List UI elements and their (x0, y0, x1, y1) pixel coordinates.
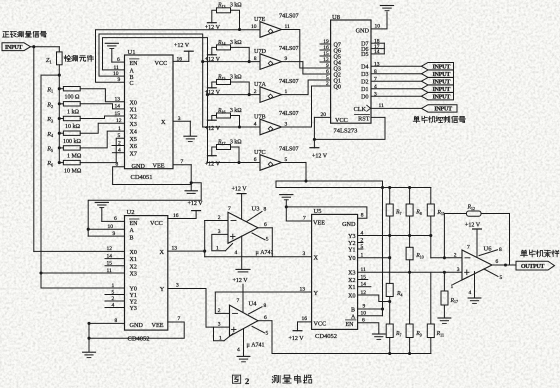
svg-text:X3: X3 (130, 272, 137, 278)
svg-text:D5: D5 (361, 52, 368, 58)
wire U5 Y3 row to resistor columns (358, 235, 431, 237)
supply bars +12V under U1 (185, 190, 197, 192)
svg-text:8: 8 (254, 56, 257, 62)
output tag OUTPUT (516, 261, 555, 270)
svg-text:10: 10 (251, 24, 257, 30)
U2 pin EN with ground above (130, 218, 140, 220)
input tag INPUT D1 (422, 85, 454, 92)
U6 output pin 6 (492, 264, 516, 266)
wire U5 X3 row to U6 non-inverting input (358, 271, 462, 273)
svg-text:Y1: Y1 (348, 247, 355, 253)
wire supply to U4 pin 7 (242, 284, 244, 312)
svg-text:R11: R11 (436, 210, 444, 216)
svg-text:EN: EN (130, 221, 139, 227)
svg-text:R12: R12 (467, 205, 476, 211)
svg-text:12: 12 (116, 118, 122, 124)
wire U1-C select loop to U7E input (96, 30, 261, 83)
svg-text:Y2: Y2 (130, 300, 137, 306)
wire U7E output to U8 Q3 (282, 30, 331, 69)
U5 pin EN to ground (346, 319, 357, 321)
resistor R3 10 kΩ (58, 117, 61, 120)
svg-text:R11: R11 (436, 331, 444, 337)
svg-text:INPUT: INPUT (5, 45, 22, 51)
svg-text:VEE: VEE (152, 322, 164, 329)
svg-text:OUTPUT: OUTPUT (521, 264, 545, 270)
svg-text:X: X (161, 119, 166, 126)
wire R15 to buffer input (231, 82, 250, 95)
wire bottom bus (272, 353, 431, 355)
svg-text:D2: D2 (361, 80, 368, 86)
U4 pin 4 to ground (243, 329, 245, 356)
wire R16 to +12V (212, 116, 217, 121)
svg-text:13: 13 (374, 61, 380, 67)
wire R3 to U1 X2 (80, 116, 124, 119)
caption 图2 测量电路 (Fig.2 measurement circuit) (233, 374, 241, 376)
svg-text:VCC: VCC (335, 117, 348, 124)
svg-text:6: 6 (264, 222, 267, 228)
svg-text:Y0: Y0 (348, 256, 355, 262)
svg-text:INPUT: INPUT (434, 106, 453, 113)
svg-text:D4: D4 (361, 65, 368, 71)
resistor R11 (top) (430, 188, 432, 205)
svg-text:U1: U1 (128, 49, 136, 56)
svg-text:X6: X6 (130, 144, 137, 150)
svg-text:Y1: Y1 (130, 293, 137, 299)
svg-text:U4: U4 (249, 300, 258, 307)
svg-text:7: 7 (374, 76, 377, 82)
svg-text:15: 15 (115, 111, 121, 117)
svg-text:X0: X0 (130, 250, 137, 256)
U1 pin X7 stub (112, 152, 124, 154)
svg-text:8: 8 (264, 303, 267, 309)
svg-text:VCC: VCC (150, 220, 163, 227)
svg-text:10: 10 (375, 23, 381, 29)
svg-text:R14: R14 (217, 40, 226, 46)
svg-text:100 Ω: 100 Ω (65, 94, 81, 100)
svg-text:3: 3 (374, 91, 377, 97)
svg-text:+12 V: +12 V (205, 57, 221, 63)
wire input rail down to U2 X0 (33, 47, 35, 252)
svg-text:INPUT: INPUT (432, 64, 451, 71)
svg-text:3: 3 (457, 267, 460, 273)
svg-text:C: C (130, 81, 134, 87)
wire R1 to U1 X0 (80, 89, 124, 102)
svg-text:Y2: Y2 (348, 241, 355, 247)
ground U2 (83, 351, 96, 353)
resistor R2 1 kΩ (58, 102, 61, 105)
svg-text:4: 4 (254, 122, 257, 128)
svg-text:Y0: Y0 (130, 287, 137, 293)
wire U1-A select loop (103, 38, 208, 163)
U6 pin 4 to ground (474, 272, 476, 298)
svg-text:X0: X0 (348, 293, 355, 299)
svg-text:X3: X3 (348, 271, 355, 277)
svg-text:R16: R16 (217, 108, 226, 114)
svg-text:+12 V: +12 V (289, 336, 305, 342)
buffer U7B 74LS07 (260, 119, 282, 135)
svg-text:R10: R10 (415, 253, 424, 259)
svg-text:INPUT: INPUT (432, 86, 451, 93)
svg-text:X1: X1 (130, 108, 137, 114)
wire U4 inverting input from Y bus (215, 312, 229, 314)
svg-text:A: A (130, 228, 135, 234)
U1 pin EN with ground (130, 58, 140, 60)
svg-text:RST: RST (358, 116, 370, 123)
svg-text:X1: X1 (348, 285, 355, 291)
wire R17 to +12V (212, 147, 217, 156)
wire R17 to buffer input (231, 147, 240, 163)
svg-text:6: 6 (264, 315, 267, 321)
svg-text:CD4051: CD4051 (131, 174, 153, 181)
wire U5 X0 to column A junction (358, 295, 390, 302)
svg-text:+12 V: +12 V (312, 153, 328, 159)
buffer U7E 74LS07 (260, 22, 282, 38)
svg-text:GND: GND (342, 221, 356, 228)
wire R16 to buffer input (231, 116, 240, 128)
wire ladder-top rail down to U2 X3/Y0 (40, 75, 42, 288)
svg-text:13: 13 (300, 286, 306, 292)
svg-text:X: X (314, 255, 319, 262)
wire Y bus to U5 (215, 291, 311, 293)
U3 pin 5 stub (252, 233, 265, 240)
svg-text:U7B: U7B (254, 113, 266, 120)
U1 pin X6 stub (112, 145, 125, 147)
label 正弦测量信号 (sine measurement signal) (3, 31, 9, 33)
svg-text:B: B (130, 235, 134, 241)
wire U4 pin1 loop (214, 327, 225, 341)
wire U5 Y0 to column A (358, 257, 390, 259)
svg-text:μ A741: μ A741 (256, 250, 274, 256)
svg-text:16: 16 (302, 316, 308, 322)
pull-up resistor R14 3k (217, 45, 231, 50)
resistor R6 10 MΩ (58, 161, 61, 164)
svg-text:Y3: Y3 (130, 306, 137, 312)
resistor R11 (bottom) (427, 324, 434, 338)
svg-text:2: 2 (326, 81, 329, 87)
analog mux U1 CD4051 (125, 55, 174, 169)
svg-text:Y: Y (314, 290, 319, 297)
wire X bus to U5 (205, 256, 312, 258)
input tag INPUT D0 (422, 93, 454, 100)
input tag INPUT D3 (422, 70, 454, 77)
svg-text:R15: R15 (217, 74, 226, 80)
svg-text:INPUT: INPUT (432, 94, 451, 101)
wire U4 non-inverting input from U2 Y (205, 289, 207, 328)
pull-up resistor R15 3k (217, 80, 231, 85)
svg-text:3 kΩ: 3 kΩ (230, 40, 242, 46)
svg-text:7: 7 (237, 298, 240, 304)
wire column C to U6 inverting (430, 216, 432, 258)
svg-text:4: 4 (237, 347, 240, 353)
wire INPUT to Z1 (31, 46, 60, 48)
label 送单片机采样 (to MCU sampling) (522, 249, 523, 252)
wire buffer U7C input line (208, 162, 261, 164)
svg-text:D1: D1 (361, 87, 368, 93)
input terminal INPUT tag (2, 43, 31, 51)
wire resistor top bus (276, 187, 431, 189)
svg-text:VCC: VCC (155, 60, 168, 67)
svg-text:4: 4 (374, 84, 377, 90)
svg-text:2: 2 (218, 308, 221, 314)
wire VEE node to U2 select feeder (88, 183, 201, 236)
svg-text:3: 3 (303, 251, 306, 257)
svg-text:CD4052: CD4052 (128, 336, 150, 343)
svg-text:3 kΩ: 3 kΩ (230, 3, 242, 9)
svg-text:Q0: Q0 (334, 84, 341, 90)
svg-text:100 kΩ: 100 kΩ (63, 139, 82, 145)
resistor R4 (386, 283, 393, 296)
U5 Y2 Y1 stubs (358, 242, 363, 244)
svg-text:5: 5 (118, 133, 121, 139)
wire U3 non-inverting input loop pin1 (212, 234, 228, 250)
svg-text:R13: R13 (217, 3, 226, 9)
svg-text:EN: EN (130, 61, 139, 67)
svg-text:X4: X4 (130, 130, 137, 136)
svg-text:+12 V: +12 V (205, 25, 221, 31)
wire U1-B select loop (99, 34, 203, 127)
wire select vertical to U5 A/B (382, 181, 384, 316)
svg-text:8: 8 (361, 213, 364, 219)
resistor R4 100 kΩ (58, 132, 61, 135)
svg-text:6: 6 (254, 157, 257, 163)
wire U7D output to U8 Q2 (282, 62, 331, 74)
wire U7C output to resistor bus (282, 163, 307, 182)
label 单片机控制信号 (MCU control signals) (415, 115, 416, 118)
svg-text:VEE: VEE (313, 220, 325, 227)
svg-text:5: 5 (266, 236, 269, 242)
svg-text:3: 3 (218, 229, 221, 235)
svg-text:13: 13 (115, 97, 121, 103)
svg-text:1: 1 (216, 245, 219, 251)
svg-text:VCC: VCC (314, 321, 327, 328)
svg-text:4: 4 (118, 148, 121, 154)
svg-text:3 kΩ: 3 kΩ (230, 139, 242, 145)
wire U3 inverting input node (205, 220, 228, 222)
wire top feed line (276, 180, 383, 182)
wire R2 to U1 X1 (80, 104, 124, 109)
svg-text:+12 V: +12 V (465, 222, 481, 228)
wire R14 to +12V (212, 47, 217, 54)
resistor R1 100 Ω (58, 87, 61, 90)
wire U7B output to U8 Q0 (282, 86, 331, 127)
resistor R9 (406, 324, 413, 338)
svg-text:X: X (160, 249, 165, 256)
wire column A (389, 216, 391, 283)
svg-text:Y: Y (160, 286, 165, 293)
svg-text:74LS07: 74LS07 (279, 45, 299, 52)
wire R5 to U1 X4 (80, 131, 124, 148)
svg-text:1: 1 (219, 336, 222, 342)
svg-text:14: 14 (374, 49, 380, 55)
svg-text:14: 14 (115, 104, 121, 110)
input tag INPUT CLK (422, 105, 458, 112)
svg-text:3: 3 (176, 283, 179, 289)
U6 pin 5 stub (484, 269, 498, 277)
svg-text:7: 7 (178, 316, 181, 322)
wire buffer U7A input line (208, 94, 261, 96)
label 检测元件 (detection element) (65, 55, 67, 61)
svg-text:2: 2 (254, 89, 257, 95)
svg-text:R7: R7 (395, 209, 402, 215)
buffer U7A 74LS07 (260, 87, 282, 103)
svg-text:+12 V: +12 V (188, 201, 204, 207)
svg-text:R17: R17 (217, 139, 226, 145)
svg-text:4: 4 (235, 250, 238, 256)
wire resistor chain rail (58, 89, 60, 163)
svg-text:Y3: Y3 (348, 234, 355, 240)
svg-text:INPUT: INPUT (432, 79, 451, 86)
svg-text:1 MΩ: 1 MΩ (67, 154, 82, 160)
svg-text:+12 V: +12 V (233, 278, 249, 284)
svg-text:GND: GND (132, 163, 146, 170)
svg-text:2: 2 (118, 140, 121, 146)
resistor R8 (409, 188, 411, 205)
svg-text:2: 2 (245, 376, 249, 386)
svg-text:B: B (351, 308, 355, 314)
svg-text:R7: R7 (395, 331, 402, 337)
detector element Z1 (58, 47, 60, 52)
svg-text:7: 7 (467, 244, 470, 250)
wire U3 +12V supply (237, 193, 246, 195)
svg-text:3: 3 (218, 322, 221, 328)
wire R13 to +12V (212, 10, 217, 22)
svg-text:74LS273: 74LS273 (334, 128, 358, 135)
svg-text:X3: X3 (130, 122, 137, 128)
svg-text:4: 4 (469, 290, 472, 296)
svg-text:5: 5 (266, 331, 269, 337)
svg-text:GND: GND (130, 322, 144, 329)
svg-text:3 kΩ: 3 kΩ (230, 108, 242, 114)
svg-text:X2: X2 (348, 278, 355, 284)
ground R17 (438, 317, 451, 319)
svg-text:R8: R8 (415, 209, 422, 215)
svg-text:U3: U3 (252, 206, 260, 213)
wire column B (409, 216, 411, 247)
svg-text:1: 1 (112, 283, 115, 289)
svg-text:8: 8 (374, 69, 377, 75)
U6 pin 1 stub (453, 277, 468, 284)
svg-text:1: 1 (451, 284, 454, 290)
svg-text:+12 V: +12 V (174, 43, 190, 49)
analog mux U2 CD4052 (125, 216, 168, 331)
svg-text:6: 6 (117, 57, 120, 63)
svg-text:U7D: U7D (254, 48, 267, 55)
svg-text:B: B (130, 75, 134, 81)
svg-text:VEE: VEE (153, 163, 165, 170)
svg-text:+12 V: +12 V (232, 187, 248, 193)
svg-text:74LS07: 74LS07 (279, 78, 299, 85)
op-amp U6 (462, 250, 492, 280)
svg-text:6: 6 (114, 216, 117, 222)
svg-text:CD4052: CD4052 (315, 333, 337, 340)
wire R15 to +12V (212, 82, 217, 88)
buffer U7C 74LS07 (260, 155, 282, 171)
svg-text:8: 8 (264, 207, 267, 213)
svg-text:7: 7 (228, 206, 231, 212)
U3 pin 4 to +12V bars (241, 236, 243, 269)
svg-text:8: 8 (499, 247, 502, 253)
op-amp U3 uA741 (228, 212, 258, 243)
wire buffer U7B input line (203, 126, 260, 128)
svg-text:X5: X5 (130, 137, 137, 143)
svg-text:U7C: U7C (254, 149, 266, 156)
svg-text:X2: X2 (130, 115, 137, 121)
svg-text:U7A: U7A (254, 81, 267, 88)
svg-text:74LS07: 74LS07 (279, 110, 299, 117)
resistor R17 (443, 271, 446, 274)
U5 X2 X1 stubs (358, 279, 368, 281)
svg-text:INPUT: INPUT (432, 71, 451, 78)
svg-text:EN: EN (346, 322, 355, 328)
wire R13 to buffer input (231, 10, 240, 29)
svg-text:1: 1 (118, 126, 121, 132)
svg-text:R17: R17 (450, 298, 459, 304)
svg-text:X0: X0 (130, 100, 137, 106)
pull-up resistor R13 3k (217, 8, 231, 13)
wire R4 to U1 X3 (80, 123, 124, 133)
svg-text:U8: U8 (332, 14, 340, 21)
svg-text:11: 11 (379, 103, 385, 109)
svg-text:D3: D3 (361, 72, 368, 78)
latch U8 74LS273 (331, 20, 371, 123)
svg-text:D0: D0 (361, 95, 368, 101)
wire buffer U7D input line (203, 61, 260, 63)
svg-text:11: 11 (107, 268, 113, 274)
svg-text:GND: GND (356, 27, 370, 34)
input tag INPUT D2 (422, 78, 454, 85)
svg-text:6: 6 (496, 259, 499, 265)
resistor R5 1 MΩ (58, 146, 61, 149)
svg-text:U5: U5 (314, 208, 322, 215)
svg-text:μ A741: μ A741 (247, 343, 265, 349)
pull-up resistor R17 3k (217, 145, 231, 150)
input tag INPUT D4 (422, 63, 454, 70)
svg-text:7: 7 (303, 215, 306, 221)
svg-text:5: 5 (500, 275, 503, 281)
svg-text:1 kΩ: 1 kΩ (67, 110, 80, 116)
wire R14 to buffer input (231, 47, 250, 61)
svg-text:+12 V: +12 V (205, 90, 221, 96)
svg-text:U2: U2 (127, 209, 135, 216)
svg-text:10 MΩ: 10 MΩ (64, 168, 82, 174)
svg-text:CLK: CLK (354, 106, 367, 113)
U5 pin VEE to ground above (280, 194, 293, 196)
resistor R7 (bottom) (386, 324, 393, 338)
svg-text:X1: X1 (130, 257, 137, 263)
resistor R7 (top) (389, 188, 391, 205)
buffer U7D 74LS07 (260, 54, 282, 70)
svg-text:74LS07: 74LS07 (279, 13, 299, 20)
svg-text:2: 2 (454, 252, 457, 258)
svg-text:2: 2 (218, 215, 221, 221)
op-amp U4 uA741 (230, 305, 259, 336)
wire U7A output to U8 Q1 (282, 80, 331, 95)
svg-text:R4: R4 (396, 291, 403, 297)
U4 output pin 6 to bottom bus (258, 320, 272, 322)
svg-text:3 kΩ: 3 kΩ (230, 74, 242, 80)
U4 pin 5 stub (252, 326, 265, 333)
svg-text:X7: X7 (130, 151, 137, 157)
svg-text:U7E: U7E (254, 16, 266, 23)
svg-text:12: 12 (107, 246, 113, 252)
svg-text:10 kΩ: 10 kΩ (65, 124, 81, 130)
node input junction (32, 45, 35, 48)
analog mux U5 CD4052 (312, 214, 358, 329)
svg-text:R9: R9 (415, 331, 422, 337)
wire R6 to U1 X5 (80, 138, 124, 162)
U3 output pin 6 to X bus (258, 227, 272, 229)
wire column C lower to R11 bottom (430, 272, 432, 324)
